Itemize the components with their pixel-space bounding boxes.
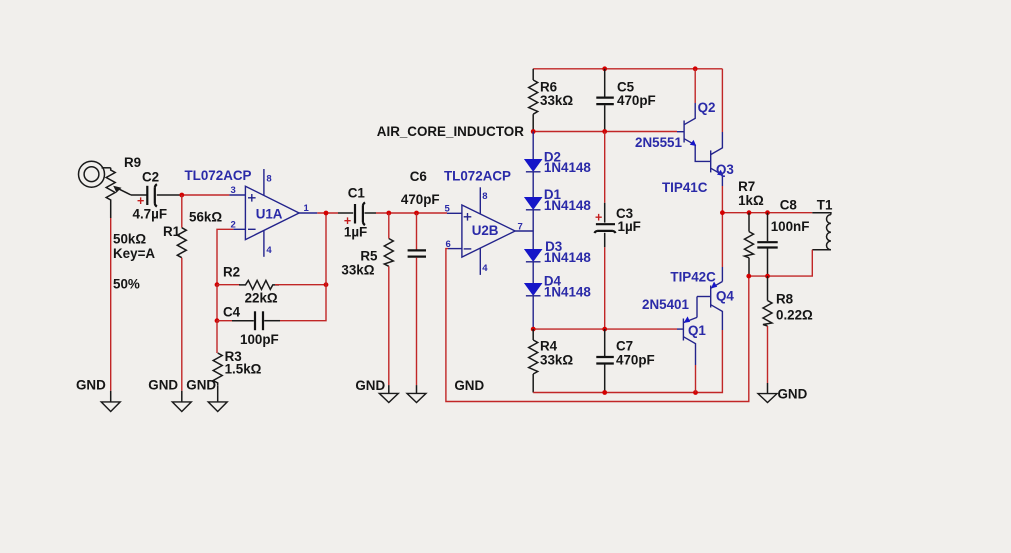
svg-text:AIR_CORE_INDUCTOR: AIR_CORE_INDUCTOR <box>377 124 524 139</box>
svg-text:4: 4 <box>266 245 272 256</box>
svg-text:C4: C4 <box>223 305 241 320</box>
capacitor C3 <box>594 132 615 330</box>
svg-text:0.22Ω: 0.22Ω <box>776 308 813 323</box>
second rail <box>533 131 677 133</box>
svg-text:TL072ACP: TL072ACP <box>185 168 252 183</box>
svg-text:1N4148: 1N4148 <box>544 198 591 213</box>
junction C4 left <box>215 318 220 323</box>
svg-text:GND: GND <box>355 378 385 393</box>
junction R5 top <box>386 211 391 216</box>
junction R2 right <box>324 282 329 287</box>
ground GND5 <box>407 385 426 402</box>
svg-text:50kΩ: 50kΩ <box>113 232 146 247</box>
junction R2 left <box>215 282 220 287</box>
wire R8 to ground <box>767 326 769 383</box>
potentiometer R9 <box>106 168 131 218</box>
junction C5 bottom <box>602 129 607 134</box>
svg-text:33kΩ: 33kΩ <box>540 353 573 368</box>
ground GND4 <box>379 385 398 402</box>
diode D1 <box>525 172 542 210</box>
svg-text:GND: GND <box>76 377 106 392</box>
svg-text:4.7µF: 4.7µF <box>133 206 168 221</box>
capacitor C2 <box>147 184 182 206</box>
wire diode column mid <box>532 210 534 250</box>
wire R5 top lead <box>388 213 390 239</box>
junction C5 top <box>602 66 607 71</box>
wire U2B pin6 feedback down <box>446 249 749 402</box>
svg-text:C2: C2 <box>142 170 159 185</box>
wire Q1 collector down <box>695 365 697 393</box>
junction C3 bottom <box>602 327 607 332</box>
wire Q3 collector to top rail <box>721 69 723 132</box>
svg-text:100nF: 100nF <box>771 219 810 234</box>
svg-text:C7: C7 <box>616 339 633 354</box>
svg-text:TIP41C: TIP41C <box>662 180 708 195</box>
third rail bias node <box>533 328 677 330</box>
svg-text:U1A: U1A <box>256 206 283 221</box>
junction R8 top <box>765 274 770 279</box>
svg-text:U2B: U2B <box>472 223 499 238</box>
svg-text:TIP42C: TIP42C <box>670 269 716 284</box>
svg-text:R2: R2 <box>223 265 240 280</box>
wire Q3 emitter to output node <box>721 186 723 213</box>
svg-text:Q4: Q4 <box>716 288 734 303</box>
junction diode column bottom <box>531 327 536 332</box>
wire R2 right lead <box>275 284 326 286</box>
junction R7 bottom <box>746 274 751 279</box>
wire C6 column <box>416 213 418 250</box>
svg-text:56kΩ: 56kΩ <box>189 210 222 225</box>
wire C4 right lead to feedback <box>280 285 326 321</box>
svg-text:R5: R5 <box>360 249 378 264</box>
svg-text:50%: 50% <box>113 277 140 292</box>
wire junction down to R1 <box>181 195 183 228</box>
junction C7 bottom <box>602 390 607 395</box>
capacitor C8 <box>757 213 777 276</box>
svg-text:4: 4 <box>482 263 488 274</box>
wire T1 bottom to lower node <box>749 250 813 276</box>
svg-text:T1: T1 <box>817 198 833 213</box>
diode D3 <box>525 250 542 262</box>
op-amp U1A <box>229 169 317 257</box>
svg-text:22kΩ: 22kΩ <box>245 291 278 306</box>
junction diode column top <box>531 129 536 134</box>
wire output to feedback vertical <box>325 213 327 285</box>
resistor R3 <box>213 353 222 385</box>
svg-text:TL072ACP: TL072ACP <box>444 169 511 184</box>
resistor R1 <box>177 228 186 258</box>
svg-text:33kΩ: 33kΩ <box>341 263 374 278</box>
output rail <box>722 212 812 214</box>
svg-text:470pF: 470pF <box>401 192 440 207</box>
resistor R2 <box>239 280 279 289</box>
svg-text:470pF: 470pF <box>617 93 656 108</box>
ground GND3 <box>208 385 227 411</box>
inductor T1 <box>812 213 831 250</box>
svg-text:Q2: Q2 <box>698 100 716 115</box>
junction C8 top <box>765 210 770 215</box>
wire C6 to ground <box>416 258 418 386</box>
svg-text:2N5551: 2N5551 <box>635 135 682 150</box>
svg-text:GND: GND <box>454 378 484 393</box>
svg-text:1kΩ: 1kΩ <box>738 193 764 208</box>
ground GND1 <box>101 391 120 412</box>
junction R7 top <box>747 210 752 215</box>
svg-text:1: 1 <box>304 203 310 214</box>
svg-text:8: 8 <box>482 191 487 202</box>
wire U1A output <box>317 212 338 214</box>
resistor R6 <box>529 69 538 132</box>
svg-text:R9: R9 <box>124 155 141 170</box>
wire C4 node down to R3 <box>216 321 218 353</box>
svg-text:R1: R1 <box>163 224 181 239</box>
wire C4 left lead <box>217 320 232 322</box>
wire C1 to U2B pin5 <box>376 212 447 214</box>
svg-text:R8: R8 <box>776 292 794 307</box>
junction output left <box>720 210 725 215</box>
svg-text:1µF: 1µF <box>344 225 367 240</box>
wire R9 bottom to ground <box>110 218 112 391</box>
svg-text:1N4148: 1N4148 <box>544 284 591 299</box>
svg-text:GND: GND <box>778 386 808 401</box>
resistor R5 <box>384 239 393 267</box>
wire C4 right lead <box>264 320 280 322</box>
capacitor C5 <box>596 69 614 132</box>
wire R5 to ground <box>388 266 390 385</box>
svg-text:R4: R4 <box>540 339 558 354</box>
transistor Q3 <box>711 132 724 186</box>
svg-text:3: 3 <box>231 185 236 196</box>
svg-text:8: 8 <box>266 173 271 184</box>
svg-text:+: + <box>595 211 602 225</box>
inner bottom rail <box>533 330 722 393</box>
diode D4 <box>525 262 542 329</box>
transistor Q2 <box>677 103 711 161</box>
diode D2 <box>525 132 542 172</box>
svg-text:R7: R7 <box>738 179 755 194</box>
svg-text:33kΩ: 33kΩ <box>540 93 573 108</box>
wire C2 to U1A pin3 <box>182 194 230 196</box>
connector J1 <box>79 161 111 187</box>
svg-text:2N5401: 2N5401 <box>642 297 689 312</box>
wire R1 to ground <box>181 258 183 391</box>
svg-text:1.5kΩ: 1.5kΩ <box>225 361 262 376</box>
op-amp U2B <box>447 187 533 275</box>
resistor R4 <box>529 329 538 392</box>
top rail <box>533 68 722 70</box>
wire U1A pin2 to feedback node <box>217 229 233 284</box>
svg-text:Key=A: Key=A <box>113 246 155 261</box>
wire Q2 collector to top rail <box>694 69 696 103</box>
transistor Q1 <box>677 297 697 366</box>
ground GND6 <box>758 383 777 403</box>
capacitor C1 <box>338 202 376 225</box>
svg-text:5: 5 <box>445 204 451 215</box>
svg-text:C8: C8 <box>780 198 798 213</box>
svg-text:GND: GND <box>148 377 178 392</box>
junction Q2 collector top <box>693 66 698 71</box>
resistor R7 <box>745 213 754 276</box>
wire feedback node down to C4 <box>216 285 218 321</box>
svg-text:1N4148: 1N4148 <box>544 160 591 175</box>
svg-text:100pF: 100pF <box>240 332 279 347</box>
svg-text:Q3: Q3 <box>716 162 734 177</box>
resistor R8 <box>763 276 772 326</box>
svg-text:Q1: Q1 <box>688 323 706 338</box>
junction input node <box>179 193 184 198</box>
ground GND2 <box>172 391 191 412</box>
wire C4 left lead black <box>232 320 254 322</box>
capacitor C6 <box>408 250 426 256</box>
capacitor C7 <box>596 329 614 392</box>
junction U1A output <box>324 211 329 216</box>
transistor Q4 <box>697 213 722 330</box>
svg-text:7: 7 <box>518 221 523 232</box>
junction C6 top <box>414 211 419 216</box>
svg-text:1N4148: 1N4148 <box>544 250 591 265</box>
svg-text:470pF: 470pF <box>616 353 655 368</box>
svg-text:GND: GND <box>186 377 216 392</box>
junction Q1 collector bottom <box>693 390 698 395</box>
svg-text:C6: C6 <box>410 169 427 184</box>
svg-text:1µF: 1µF <box>618 219 641 234</box>
svg-text:C1: C1 <box>348 185 366 200</box>
wire R9 wiper to C2 <box>131 194 147 196</box>
capacitor C4 <box>255 311 263 330</box>
wire R2 left lead <box>217 284 240 286</box>
